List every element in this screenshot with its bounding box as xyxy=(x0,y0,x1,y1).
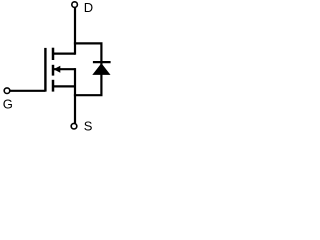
wire drain lead xyxy=(53,52,75,54)
transistor Q1 gate bar xyxy=(44,48,46,92)
wire source lead xyxy=(53,85,75,87)
background xyxy=(0,0,113,134)
svg-text:G: G xyxy=(3,96,13,111)
transistor Q1 channel segment middle xyxy=(52,65,55,76)
transistor Q1 channel segment top xyxy=(52,48,55,60)
svg-text:D: D xyxy=(84,0,93,15)
terminal circle S xyxy=(71,123,77,129)
terminal circle D xyxy=(72,2,78,8)
wire diode branch xyxy=(74,43,102,95)
wire source vertical xyxy=(74,68,76,123)
wire gate lead xyxy=(10,90,46,92)
wire drain vertical xyxy=(74,8,76,55)
transistor Q1 channel segment bottom xyxy=(52,80,55,92)
diode D1 cathode bar xyxy=(93,61,111,63)
terminal circle G xyxy=(4,88,10,94)
transistor Q1 body arrow xyxy=(54,66,61,73)
svg-text:S: S xyxy=(84,118,93,133)
wire body lead xyxy=(54,68,75,70)
diode D1 anode triangle xyxy=(92,63,110,75)
